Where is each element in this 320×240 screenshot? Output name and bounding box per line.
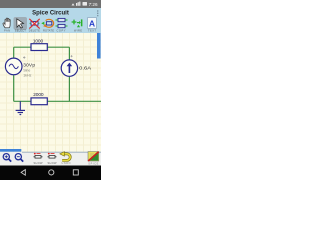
svg-text:Sine: Sine <box>23 69 30 73</box>
svg-text:0.6A: 0.6A <box>79 65 92 71</box>
horizontal scrollbar <box>0 149 21 152</box>
canvas background <box>0 33 101 152</box>
undo button <box>60 152 71 165</box>
canvas grid <box>0 33 101 152</box>
svg-text:2000: 2000 <box>33 92 44 98</box>
toolbar: TEXT <box>88 18 97 33</box>
show values button <box>34 153 44 165</box>
header background <box>0 8 101 33</box>
resistor R2 box <box>31 98 47 105</box>
wire: top horizontal, node A to node B <box>14 46 70 48</box>
svg-text:UNDO: UNDO <box>62 162 71 165</box>
svg-text:7:26: 7:26 <box>89 2 98 7</box>
svg-text:1kHz: 1kHz <box>23 73 31 77</box>
android nav bar <box>0 166 101 181</box>
svg-text:WIRE: WIRE <box>74 28 82 32</box>
svg-text:SHOW: SHOW <box>34 161 44 165</box>
toolbar: SELECT (pressed) <box>14 17 28 33</box>
svg-text:1000: 1000 <box>33 38 44 44</box>
svg-text:SHOW: SHOW <box>48 161 58 165</box>
ground symbol <box>16 101 25 114</box>
overflow menu dots <box>97 10 98 16</box>
status icons <box>72 2 88 6</box>
toolbar: WIRE <box>72 19 83 32</box>
toolbar: PAN hand icon <box>3 18 10 32</box>
svg-text:COPY: COPY <box>57 28 66 32</box>
status bar <box>0 0 101 8</box>
nav recents <box>73 170 78 175</box>
resistor R1 box <box>31 44 47 51</box>
wire: right vertical lower (I1 bottom to bottom wire) <box>68 76 70 101</box>
spice button <box>88 152 99 166</box>
wire: bottom horizontal (node C to right edge) <box>14 100 101 102</box>
wire: left vertical lower (V1 bottom to node C) <box>13 75 15 102</box>
svg-text:DELETE: DELETE <box>29 28 40 32</box>
I1 polarity + <box>71 55 73 57</box>
nav home <box>49 170 54 175</box>
svg-text:TEXT: TEXT <box>88 29 96 33</box>
V1 polarity + <box>23 56 25 58</box>
nav back <box>21 170 25 176</box>
svg-text:ROTATE: ROTATE <box>43 28 54 32</box>
zoom in button <box>3 154 11 162</box>
svg-text:30Vp: 30Vp <box>23 62 35 68</box>
vertical scrollbar <box>97 33 101 59</box>
bottom toolbar background <box>0 152 101 166</box>
toolbar: DELETE <box>29 19 40 33</box>
toolbar: ROTATE <box>42 19 55 32</box>
svg-text:SPICE: SPICE <box>88 162 98 165</box>
current source I1 <box>61 60 77 76</box>
svg-text:SELECT: SELECT <box>15 29 26 33</box>
wire: right vertical upper (node B to I1 top) <box>68 47 70 60</box>
zoom out button <box>15 154 23 162</box>
toolbar: COPY <box>56 18 68 32</box>
show labels button <box>48 153 58 165</box>
svg-text:PAN: PAN <box>4 28 10 32</box>
wire: left vertical upper (node A to V1 top) <box>13 47 15 58</box>
svg-text:A: A <box>89 19 95 29</box>
voltage source V1 <box>5 58 22 75</box>
svg-text:Spice Circuit: Spice Circuit <box>32 11 69 17</box>
